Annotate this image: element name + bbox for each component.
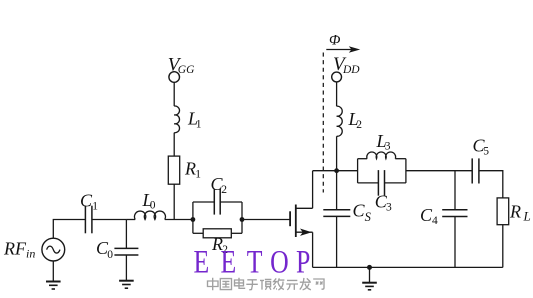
- svg-text:in: in: [26, 247, 35, 261]
- terminal VDD: [332, 72, 342, 82]
- svg-text:L: L: [523, 209, 531, 224]
- svg-text:T: T: [247, 245, 263, 281]
- wire: bottom edge right: [385, 182, 406, 184]
- node C dot: [334, 168, 339, 173]
- label L2: [348, 109, 363, 131]
- node A dot: [191, 217, 196, 222]
- wire node down to C0: [125, 220, 127, 249]
- wire drain up: [312, 171, 314, 268]
- svg-text:C: C: [353, 201, 366, 221]
- label L3: [376, 131, 391, 153]
- svg-text:3: 3: [385, 140, 391, 152]
- svg-text:1: 1: [195, 169, 201, 181]
- wire L1 to R1: [173, 133, 175, 156]
- wire: top edge right stub: [395, 158, 406, 160]
- resistor R1: [168, 156, 179, 184]
- svg-text:2: 2: [356, 119, 362, 131]
- source RFin: [42, 238, 65, 261]
- wire C1 to node: [92, 219, 127, 221]
- wire rail to ground: [369, 267, 371, 282]
- wire: top edge left stub: [358, 158, 368, 160]
- svg-text:1: 1: [92, 200, 98, 212]
- label C2: [211, 174, 228, 196]
- wire C4 lead: [454, 171, 456, 268]
- node B dot: [240, 217, 245, 222]
- wire node line: [313, 170, 358, 172]
- capacitor C5: [472, 158, 479, 183]
- wire C0 to ground: [125, 255, 127, 281]
- capacitor CS: [323, 210, 350, 217]
- resistor R2: [203, 229, 231, 238]
- wire: bottom edge left: [358, 182, 379, 184]
- inductor L2: [337, 106, 343, 136]
- svg-text:DD: DD: [342, 64, 360, 76]
- svg-text:GG: GG: [178, 64, 195, 76]
- svg-text:4: 4: [432, 215, 438, 227]
- wire ground rail: [313, 266, 503, 268]
- wire: C2/R2 left edge: [192, 202, 194, 233]
- wire CS to rail: [336, 216, 338, 267]
- dashed load line: [322, 53, 324, 193]
- ground: [362, 283, 377, 290]
- svg-text:E: E: [194, 245, 210, 281]
- svg-text:O: O: [270, 245, 289, 281]
- arrow: [326, 46, 360, 52]
- wire: L3/C3 right edge: [405, 159, 407, 183]
- wire: bottom branch left: [193, 232, 203, 234]
- label L0: [142, 190, 156, 212]
- ground: [119, 281, 134, 289]
- wire node to L0: [126, 219, 135, 221]
- capacitor C1: [85, 206, 92, 234]
- label C3: [375, 191, 392, 213]
- svg-text:R: R: [184, 159, 196, 179]
- svg-text:Φ: Φ: [329, 32, 341, 48]
- inductor L1: [174, 106, 179, 133]
- resistor RL: [497, 198, 509, 225]
- label R2: [211, 234, 228, 256]
- svg-text:5: 5: [483, 145, 489, 157]
- wire VDD to L2: [336, 82, 338, 106]
- wire node C down to CS: [336, 171, 338, 210]
- label C5: [473, 135, 490, 157]
- label VGG: [168, 54, 195, 76]
- svg-text:P: P: [296, 245, 310, 281]
- wire R1 to node A: [173, 184, 175, 219]
- label CS: [353, 201, 372, 225]
- label C4: [420, 205, 438, 227]
- wire C5 to RL: [479, 171, 503, 198]
- capacitor C4: [442, 210, 467, 217]
- label C0: [96, 238, 113, 261]
- watermark Chinese text (drawn glyphs): [208, 278, 325, 290]
- wire source bottom to ground: [52, 261, 54, 281]
- svg-text:2: 2: [221, 184, 227, 196]
- inductor L0: [134, 211, 165, 219]
- inductor L3: [367, 152, 396, 159]
- svg-text:E: E: [221, 245, 237, 281]
- ground: [46, 282, 61, 290]
- capacitor C2: [214, 189, 220, 215]
- label RFin: [3, 239, 35, 261]
- label VDD: [333, 54, 360, 76]
- wire source top to C1: [53, 220, 85, 239]
- wire VGG to L1: [173, 82, 175, 106]
- label R1: [184, 159, 201, 181]
- svg-text:R: R: [509, 201, 521, 221]
- transistor Q1 MOSFET: [290, 205, 313, 238]
- label RL: [509, 201, 531, 223]
- terminal VGG: [169, 72, 180, 83]
- svg-text:RF: RF: [3, 239, 27, 259]
- label C1: [80, 190, 98, 212]
- wire: bottom branch right: [231, 232, 242, 234]
- svg-text:1: 1: [196, 119, 202, 131]
- wire: C2/R2 right edge: [241, 202, 243, 233]
- wire: top branch right: [220, 201, 242, 203]
- label L1: [187, 109, 202, 131]
- wire L0 to node A: [165, 219, 193, 221]
- wire: top branch left: [193, 201, 214, 203]
- wire gate lead: [242, 219, 290, 221]
- capacitor C3: [378, 170, 384, 196]
- wire L2 to node C: [336, 136, 338, 170]
- svg-text:S: S: [365, 210, 372, 224]
- wire RL to rail: [502, 225, 504, 268]
- svg-text:C: C: [80, 190, 93, 210]
- svg-text:0: 0: [107, 249, 113, 261]
- svg-text:0: 0: [150, 200, 156, 212]
- node D dot: [367, 265, 372, 270]
- svg-text:3: 3: [386, 201, 392, 213]
- watermark EETOP: [194, 245, 311, 281]
- capacitor C0: [114, 248, 138, 255]
- wire: L3/C3 left edge: [357, 159, 359, 183]
- wire box to C5: [406, 170, 472, 172]
